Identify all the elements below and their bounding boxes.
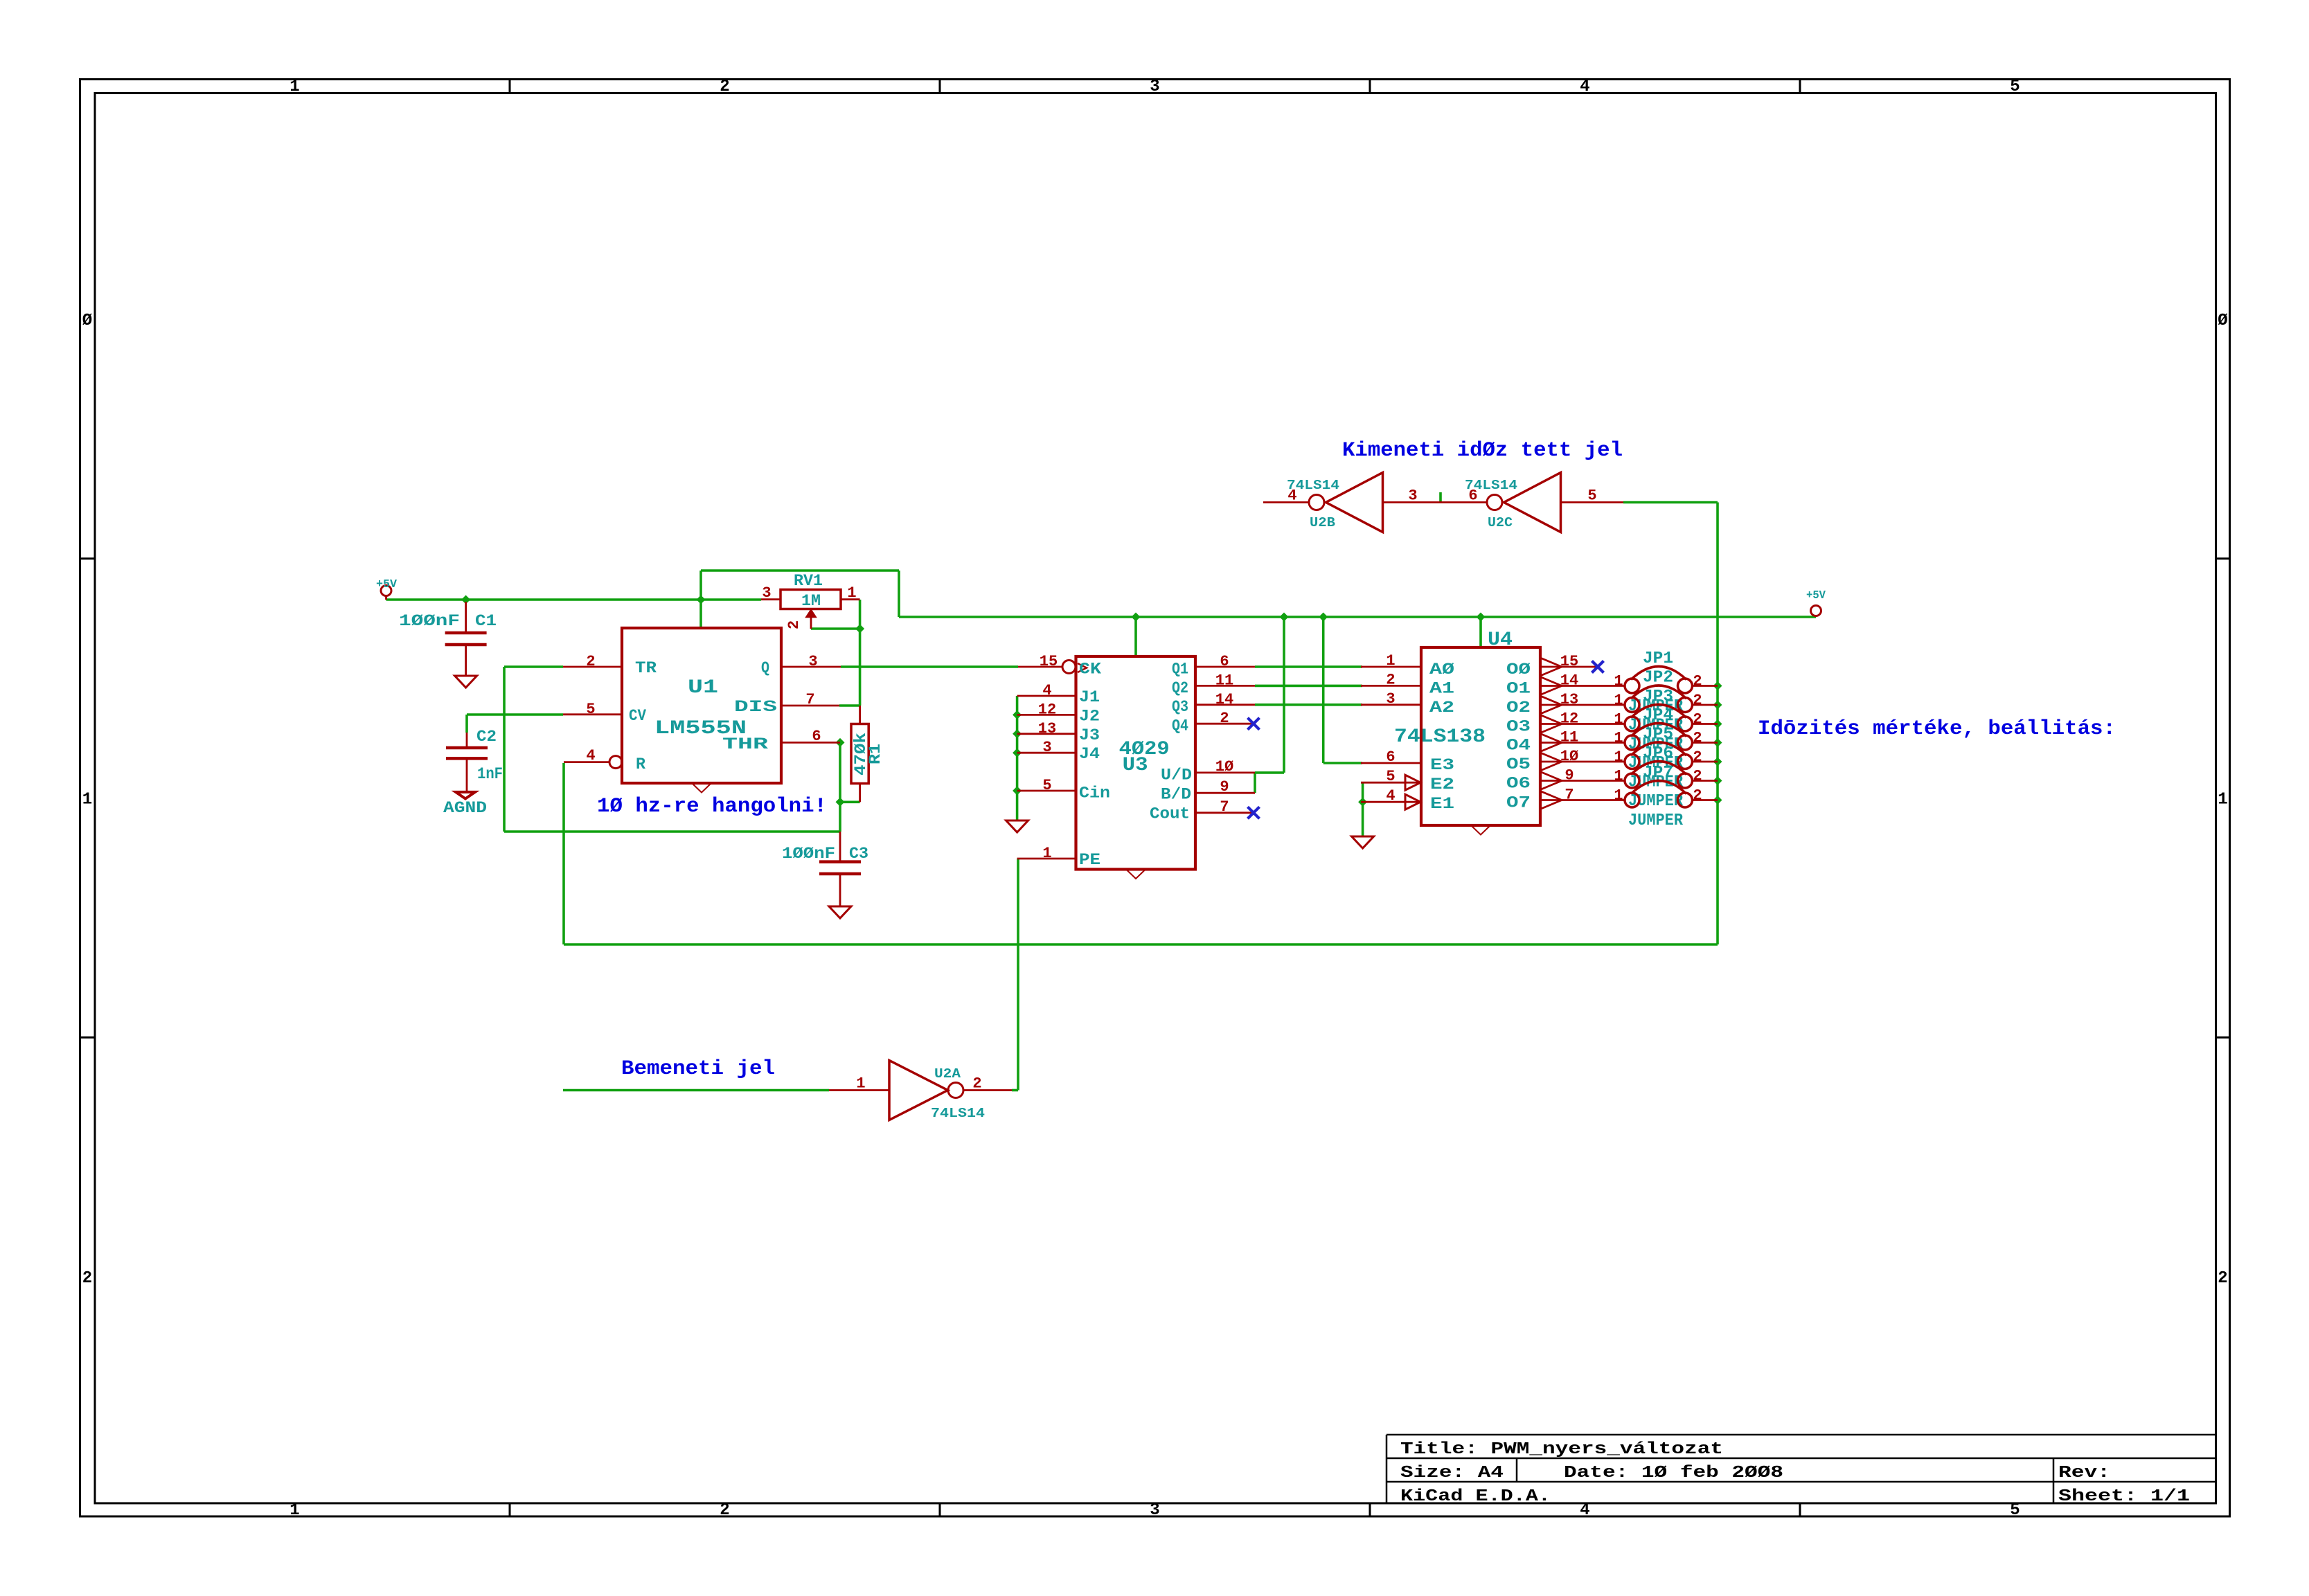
svg-text:JP1: JP1 bbox=[1643, 649, 1673, 668]
svg-text:U2C: U2C bbox=[1488, 515, 1513, 530]
svg-text:1: 1 bbox=[1614, 768, 1623, 785]
svg-text:14: 14 bbox=[1215, 691, 1233, 708]
svg-text:13: 13 bbox=[1560, 691, 1578, 708]
svg-text:74LS138: 74LS138 bbox=[1394, 726, 1486, 748]
svg-text:2: 2 bbox=[1693, 730, 1702, 747]
svg-text:CV: CV bbox=[629, 707, 646, 725]
svg-text:Cout: Cout bbox=[1150, 805, 1190, 823]
svg-text:O6: O6 bbox=[1506, 775, 1531, 793]
svg-text:5: 5 bbox=[1587, 487, 1596, 505]
svg-text:R: R bbox=[636, 755, 645, 773]
svg-text:2: 2 bbox=[972, 1075, 981, 1093]
svg-text:1: 1 bbox=[2218, 791, 2227, 809]
svg-text:9: 9 bbox=[1564, 767, 1573, 784]
svg-text:Sheet: 1/1: Sheet: 1/1 bbox=[2058, 1487, 2190, 1506]
svg-text:JP4: JP4 bbox=[1643, 706, 1673, 725]
svg-text:O4: O4 bbox=[1506, 737, 1531, 755]
svg-text:A2: A2 bbox=[1429, 699, 1454, 717]
svg-text:AØ: AØ bbox=[1429, 661, 1454, 679]
svg-text:9: 9 bbox=[1220, 778, 1229, 796]
svg-text:4: 4 bbox=[1580, 78, 1589, 96]
svg-text:E2: E2 bbox=[1430, 775, 1454, 793]
svg-text:E1: E1 bbox=[1430, 795, 1454, 813]
svg-text:1: 1 bbox=[847, 584, 856, 602]
svg-text:11: 11 bbox=[1560, 729, 1578, 746]
svg-text:U/D: U/D bbox=[1161, 766, 1192, 784]
svg-text:74LS14: 74LS14 bbox=[1287, 478, 1339, 493]
svg-text:1nF: 1nF bbox=[477, 765, 503, 783]
svg-text:JP5: JP5 bbox=[1643, 726, 1673, 744]
svg-text:5: 5 bbox=[2010, 1501, 2020, 1520]
svg-text:R1: R1 bbox=[866, 744, 884, 764]
svg-text:RV1: RV1 bbox=[794, 572, 823, 590]
svg-text:6: 6 bbox=[1220, 653, 1229, 670]
svg-text:OØ: OØ bbox=[1506, 661, 1531, 679]
svg-text:2: 2 bbox=[1693, 748, 1702, 766]
svg-text:2: 2 bbox=[1693, 673, 1702, 690]
svg-text:E3: E3 bbox=[1430, 756, 1454, 774]
svg-text:C2: C2 bbox=[476, 728, 497, 746]
svg-text:7: 7 bbox=[805, 691, 814, 708]
svg-text:A1: A1 bbox=[1429, 679, 1454, 697]
svg-text:4: 4 bbox=[1386, 787, 1395, 805]
svg-text:PE: PE bbox=[1079, 851, 1100, 869]
svg-text:3: 3 bbox=[1408, 487, 1417, 505]
svg-text:Cin: Cin bbox=[1079, 784, 1110, 803]
svg-text:2: 2 bbox=[1693, 692, 1702, 709]
svg-text:CK: CK bbox=[1079, 660, 1101, 678]
svg-text:U4: U4 bbox=[1488, 629, 1513, 651]
svg-text:74LS14: 74LS14 bbox=[1465, 478, 1517, 493]
svg-text:Q3: Q3 bbox=[1172, 698, 1188, 716]
svg-text:B/D: B/D bbox=[1161, 786, 1191, 804]
svg-text:TR: TR bbox=[635, 659, 657, 677]
svg-text:7: 7 bbox=[1564, 787, 1573, 804]
svg-text:1: 1 bbox=[1614, 711, 1623, 728]
svg-text:3: 3 bbox=[1042, 739, 1051, 756]
svg-text:Q2: Q2 bbox=[1172, 679, 1188, 697]
svg-text:1: 1 bbox=[289, 1501, 299, 1520]
svg-text:1: 1 bbox=[856, 1075, 865, 1093]
svg-text:6: 6 bbox=[1386, 748, 1395, 766]
svg-text:U3: U3 bbox=[1123, 755, 1148, 776]
svg-text:74LS14: 74LS14 bbox=[931, 1106, 985, 1121]
svg-text:5: 5 bbox=[586, 701, 595, 718]
svg-text:2: 2 bbox=[1386, 671, 1395, 688]
svg-text:1ØØnF: 1ØØnF bbox=[399, 612, 460, 630]
svg-text:5: 5 bbox=[1042, 777, 1051, 794]
svg-text:KiCad E.D.A.: KiCad E.D.A. bbox=[1400, 1487, 1551, 1506]
svg-text:15: 15 bbox=[1560, 653, 1578, 670]
svg-text:2: 2 bbox=[1220, 710, 1229, 727]
svg-text:1: 1 bbox=[1614, 748, 1623, 766]
svg-text:JUMPER: JUMPER bbox=[1628, 812, 1684, 830]
svg-text:O1: O1 bbox=[1506, 680, 1531, 698]
svg-text:U1: U1 bbox=[688, 677, 718, 699]
svg-text:Ø: Ø bbox=[82, 312, 92, 330]
svg-text:2: 2 bbox=[1693, 711, 1702, 728]
svg-text:Date: 1Ø feb 2ØØ8: Date: 1Ø feb 2ØØ8 bbox=[1564, 1464, 1783, 1482]
svg-text:U2B: U2B bbox=[1310, 515, 1335, 530]
svg-text:J4: J4 bbox=[1079, 745, 1100, 763]
svg-text:12: 12 bbox=[1038, 701, 1056, 718]
svg-text:Idōzités mértéke, beállitás:: Idōzités mértéke, beállitás: bbox=[1758, 717, 2116, 741]
svg-text:2: 2 bbox=[720, 78, 729, 96]
svg-text:LM555N: LM555N bbox=[654, 718, 747, 739]
svg-text:Rev:: Rev: bbox=[2058, 1464, 2110, 1482]
svg-text:O2: O2 bbox=[1506, 699, 1531, 717]
svg-text:O5: O5 bbox=[1506, 755, 1531, 773]
svg-text:2: 2 bbox=[82, 1269, 92, 1288]
svg-text:+5V: +5V bbox=[1806, 589, 1826, 602]
svg-text:2: 2 bbox=[586, 653, 595, 670]
svg-text:1: 1 bbox=[1614, 730, 1623, 747]
svg-text:15: 15 bbox=[1040, 653, 1058, 670]
svg-text:DIS: DIS bbox=[734, 698, 777, 716]
svg-text:13: 13 bbox=[1038, 720, 1056, 737]
svg-text:J3: J3 bbox=[1079, 726, 1100, 744]
svg-text:O3: O3 bbox=[1506, 718, 1531, 736]
svg-text:1: 1 bbox=[82, 791, 92, 809]
svg-text:2: 2 bbox=[2218, 1269, 2227, 1288]
svg-text:2: 2 bbox=[785, 620, 803, 629]
svg-text:3: 3 bbox=[1150, 78, 1159, 96]
svg-text:JP6: JP6 bbox=[1643, 744, 1673, 763]
svg-text:2: 2 bbox=[1693, 768, 1702, 785]
svg-text:5: 5 bbox=[1386, 768, 1395, 785]
svg-text:1: 1 bbox=[1614, 787, 1623, 805]
svg-text:4: 4 bbox=[1580, 1501, 1589, 1520]
svg-text:Q1: Q1 bbox=[1172, 660, 1188, 678]
svg-text:C3: C3 bbox=[849, 845, 868, 863]
svg-text:JP2: JP2 bbox=[1643, 669, 1673, 688]
svg-text:Size: A4: Size: A4 bbox=[1400, 1464, 1504, 1482]
svg-text:1Ø hz-re hangolni!: 1Ø hz-re hangolni! bbox=[597, 795, 827, 818]
svg-text:Q4: Q4 bbox=[1172, 717, 1188, 735]
svg-text:1: 1 bbox=[1042, 845, 1051, 862]
svg-text:Ø: Ø bbox=[2218, 312, 2227, 330]
svg-text:1Ø: 1Ø bbox=[1560, 748, 1578, 765]
svg-text:12: 12 bbox=[1560, 710, 1578, 728]
svg-text:Title: PWM_nyers_változat: Title: PWM_nyers_változat bbox=[1400, 1440, 1723, 1459]
svg-text:3: 3 bbox=[808, 653, 817, 670]
svg-text:JP7: JP7 bbox=[1643, 764, 1673, 782]
svg-text:2: 2 bbox=[720, 1501, 729, 1520]
svg-text:4: 4 bbox=[586, 747, 595, 764]
svg-text:Bemeneti jel: Bemeneti jel bbox=[621, 1057, 775, 1081]
svg-text:JP3: JP3 bbox=[1643, 688, 1673, 706]
svg-text:1Ø: 1Ø bbox=[1215, 758, 1233, 775]
svg-text:3: 3 bbox=[1386, 690, 1395, 708]
svg-text:U2A: U2A bbox=[934, 1066, 961, 1082]
svg-text:6: 6 bbox=[812, 728, 821, 745]
svg-text:Q: Q bbox=[761, 659, 769, 677]
svg-text:1: 1 bbox=[1386, 652, 1395, 670]
svg-text:J2: J2 bbox=[1079, 707, 1100, 725]
svg-text:Kimeneti idØz tett jel: Kimeneti idØz tett jel bbox=[1342, 439, 1623, 463]
svg-text:C1: C1 bbox=[475, 612, 497, 630]
svg-text:5: 5 bbox=[2010, 78, 2020, 96]
svg-text:1: 1 bbox=[1614, 692, 1623, 709]
svg-text:4: 4 bbox=[1042, 682, 1051, 699]
svg-text:J1: J1 bbox=[1079, 688, 1100, 706]
svg-text:3: 3 bbox=[1150, 1501, 1159, 1520]
svg-text:1ØØnF: 1ØØnF bbox=[782, 845, 835, 863]
svg-text:2: 2 bbox=[1693, 787, 1702, 805]
svg-text:1M: 1M bbox=[801, 592, 821, 610]
svg-text:O7: O7 bbox=[1506, 794, 1531, 812]
svg-text:1: 1 bbox=[289, 78, 299, 96]
svg-text:+5V: +5V bbox=[376, 578, 398, 591]
svg-text:1: 1 bbox=[1614, 673, 1623, 690]
svg-text:14: 14 bbox=[1560, 672, 1578, 690]
svg-text:11: 11 bbox=[1215, 672, 1233, 689]
svg-text:7: 7 bbox=[1220, 798, 1229, 816]
svg-text:3: 3 bbox=[762, 584, 771, 602]
svg-text:AGND: AGND bbox=[443, 799, 487, 817]
